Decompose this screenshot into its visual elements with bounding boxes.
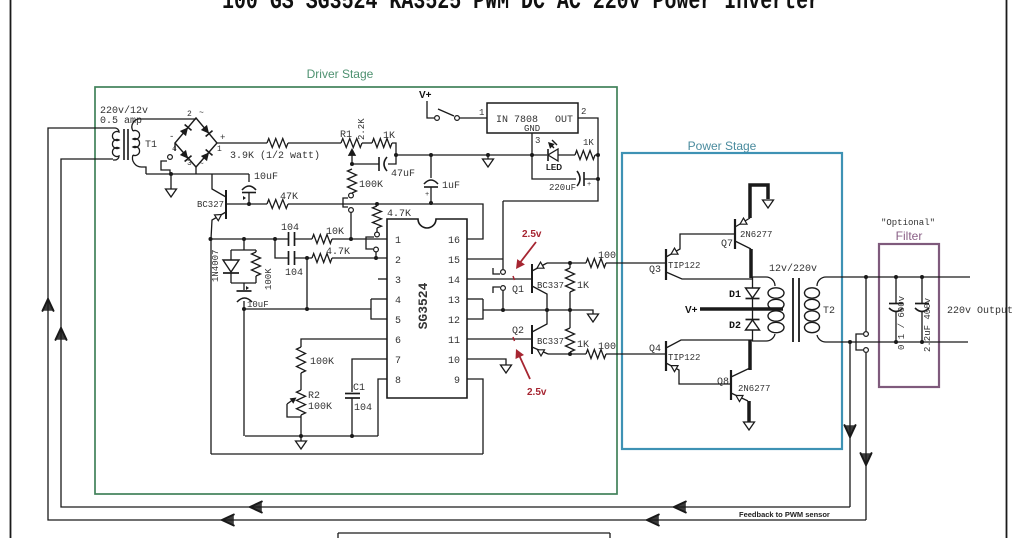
drive wire top [547, 262, 586, 264]
svg-text:1K: 1K [577, 340, 589, 351]
transistor Q4 [665, 341, 667, 371]
svg-text:2N6277: 2N6277 [740, 230, 772, 240]
resistor 47K [267, 200, 288, 209]
pin12 wire [467, 299, 483, 319]
capacitor 104 b [288, 251, 290, 265]
connector pin P2 [349, 208, 354, 213]
red tick 1 [513, 276, 515, 280]
connector pin P3 [375, 232, 380, 237]
transistor BC327 [225, 190, 227, 219]
LED diode [548, 149, 558, 161]
wire 7808 gnd down [532, 133, 576, 179]
T2 secondary outline [817, 277, 840, 286]
junction dot 431,155 [429, 153, 433, 157]
svg-text:16: 16 [448, 236, 460, 247]
transistor Q3 [665, 249, 667, 280]
svg-text:3: 3 [395, 276, 401, 287]
resistor 100K mid [348, 169, 357, 193]
resistor 4.7K vert [373, 206, 382, 228]
diode 1N4007 [230, 250, 232, 260]
pin15 wire [467, 258, 503, 260]
svg-text:BC337: BC337 [537, 281, 564, 291]
svg-text:"Optional": "Optional" [881, 218, 935, 228]
rail 310 gnd [483, 310, 593, 314]
junction dot 210,239 [209, 237, 213, 241]
svg-text:10K: 10K [326, 227, 344, 238]
junction dot 244,239 [242, 237, 246, 241]
junction dot 352,436 [350, 434, 354, 438]
junction dot T1/bridge [169, 172, 173, 176]
svg-text:~: ~ [199, 109, 204, 118]
svg-text:10uF: 10uF [254, 172, 278, 183]
wire 1K corner down [388, 143, 396, 164]
svg-text:BC337: BC337 [537, 337, 564, 347]
svg-text:TIP122: TIP122 [668, 261, 700, 271]
10uF b plus [246, 286, 249, 290]
wire J2b down [502, 291, 504, 310]
feedback arrow B up [56, 328, 67, 340]
LED arrows [549, 143, 554, 148]
svg-text:V+: V+ [685, 305, 698, 316]
svg-text:3.9K (1/2 watt): 3.9K (1/2 watt) [230, 150, 320, 162]
wire bridge to 3.9K [217, 142, 267, 144]
svg-text:100K: 100K [264, 268, 274, 290]
svg-text:T2: T2 [823, 306, 835, 317]
svg-text:Q2: Q2 [512, 326, 524, 337]
wire wiper to 47uF [352, 163, 379, 165]
transistor Q8 [730, 370, 732, 400]
svg-text:7: 7 [395, 356, 401, 367]
T1 secondary bottom wire [132, 155, 146, 174]
resistor 1K top [372, 139, 392, 148]
wire 866 down [865, 277, 867, 331]
wire R1 to 1K [362, 142, 372, 144]
pot R1 2.2K [341, 139, 362, 148]
resistor 10K [312, 235, 332, 244]
svg-text:2.2uF 400v: 2.2uF 400v [923, 297, 933, 352]
node wire y174 [146, 173, 249, 175]
junction dot 532,155 [530, 153, 534, 157]
svg-text:~: ~ [199, 160, 204, 169]
junction dot 376,258 [374, 256, 378, 260]
capacitor 1uF [430, 155, 432, 178]
svg-text:D2: D2 [729, 321, 741, 332]
svg-text:3: 3 [535, 136, 540, 146]
junction dot 244,309 [242, 307, 246, 311]
bridge minus pin hook [174, 143, 176, 151]
svg-text:13: 13 [448, 296, 460, 307]
Q8 collector thick [748, 340, 752, 370]
svg-text:3: 3 [187, 159, 192, 168]
junction dot 598,155 [596, 153, 600, 157]
capacitor C1 104 [345, 393, 360, 395]
svg-text:220v Output: 220v Output [947, 306, 1013, 317]
connector pin J2b [501, 286, 506, 291]
svg-text:100K: 100K [308, 402, 332, 413]
T2 primary coil [768, 288, 784, 298]
svg-text:BC327: BC327 [197, 200, 224, 210]
vcc drop wire [502, 201, 504, 269]
switch blade [438, 109, 454, 116]
pair bottom bar [231, 282, 256, 284]
capacitor 0.1/600v [895, 277, 897, 303]
svg-text:1: 1 [395, 236, 401, 247]
capacitor 2.2uF/400v [921, 277, 923, 303]
bridge diode BR [200, 150, 212, 162]
pin7 wire [352, 359, 387, 392]
P3 bracket [366, 237, 374, 249]
svg-text:2.2K: 2.2K [357, 118, 367, 140]
resistor 1K led [575, 151, 595, 160]
svg-text:T1: T1 [145, 140, 157, 151]
svg-text:4.7K: 4.7K [326, 247, 350, 258]
svg-text:1K: 1K [583, 138, 594, 148]
wire P2 down to rail239 [350, 212, 352, 239]
wire LED to 1K [558, 154, 575, 156]
resistor 100K vert [297, 347, 306, 373]
svg-text:6: 6 [395, 336, 401, 347]
transistor Q1 [531, 264, 533, 293]
junction dot 307,258 [305, 256, 309, 260]
svg-text:220uF: 220uF [549, 183, 576, 193]
resistor 1K q2 [569, 310, 571, 328]
svg-text:R2: R2 [308, 391, 320, 402]
IC SG3524 body [387, 219, 467, 398]
svg-text:TIP122: TIP122 [668, 353, 700, 363]
wire to 598 [595, 154, 598, 156]
junction dot wiper [350, 162, 354, 166]
svg-text:100: 100 [598, 251, 616, 262]
svg-text:D1: D1 [729, 290, 741, 301]
row2 link [275, 239, 288, 258]
junction dot 301,436 [299, 434, 303, 438]
Q8 emitter thick [747, 401, 751, 422]
drive wire bottom [548, 353, 586, 355]
pin11 wire [467, 338, 532, 340]
junction dot 866,277 [864, 275, 868, 279]
svg-text:5: 5 [395, 316, 401, 327]
feedback arrow line1 right [674, 502, 686, 513]
rail 436 [245, 435, 378, 437]
svg-text:+: + [425, 191, 429, 199]
T1 secondary coil [133, 131, 140, 156]
wire 7808 out [503, 118, 598, 201]
red arrow bottom [519, 355, 530, 379]
wire 307 down [306, 258, 308, 309]
wire 244 down [243, 309, 245, 436]
J1 bracket [161, 161, 170, 174]
battery box (partial) [338, 532, 610, 534]
junction dot at 396,155 [394, 153, 398, 157]
rail 454 [211, 453, 483, 455]
outer border right [1006, 0, 1008, 538]
resistor 1K q1 [569, 263, 571, 268]
pin13 wire [467, 298, 483, 300]
wire to Q3 [606, 262, 666, 264]
pin8 wire [378, 379, 387, 436]
svg-text:14: 14 [448, 276, 460, 287]
svg-text:1uF: 1uF [442, 181, 460, 192]
svg-text:V+: V+ [419, 90, 432, 101]
P1 jog [343, 198, 348, 207]
J2 bracket top [493, 268, 500, 274]
svg-text:Q7: Q7 [721, 239, 733, 250]
output bottom rail [840, 341, 968, 343]
junction dot 275,239 [273, 237, 277, 241]
rail 155 [397, 154, 547, 156]
capacitor 10uF a [248, 174, 250, 182]
svg-text:47uF: 47uF [391, 169, 415, 180]
feedback arrow line1 left [250, 502, 262, 513]
svg-text:Q4: Q4 [649, 344, 661, 355]
connector pin P4 [374, 247, 379, 252]
junction dot 570,354 [568, 352, 572, 356]
svg-text:12v/220v: 12v/220v [769, 263, 817, 275]
connector pin P1 [349, 193, 354, 198]
svg-text:1: 1 [479, 108, 484, 118]
junction dot 547,310 [545, 308, 549, 312]
svg-text:1K: 1K [383, 131, 395, 142]
junction dot 598,179 [596, 177, 600, 181]
svg-text:104: 104 [285, 268, 303, 279]
rail 239 [211, 238, 288, 240]
connector pin J3b [864, 348, 869, 353]
Q7 arrow gnd [763, 200, 774, 208]
feedback arrow line2 left [222, 515, 234, 526]
svg-text:-: - [169, 132, 174, 142]
wire J3b down [865, 353, 867, 520]
svg-text:2: 2 [187, 110, 192, 119]
connector pin J3a [864, 332, 869, 337]
rail 309 [244, 308, 371, 310]
capacitor 47uF [378, 157, 380, 171]
svg-text:2N6277: 2N6277 [738, 384, 770, 394]
junction dot 570,310 [568, 308, 572, 312]
bridge diamond [175, 118, 217, 167]
ground sym at T1 [170, 176, 172, 189]
R2 wiper [287, 404, 301, 417]
svg-text:0.1 / 600v: 0.1 / 600v [897, 295, 907, 350]
pot R2 [297, 390, 306, 415]
svg-text:9: 9 [454, 376, 460, 387]
feedback arrow J3b [861, 453, 872, 465]
regulator 7808 box [487, 103, 578, 133]
wire to Q4 [606, 353, 666, 355]
feedback wire A (220v top) [48, 128, 866, 520]
capacitor 104 a [288, 232, 290, 246]
wire R2 down [300, 415, 302, 436]
ground at 488 [487, 155, 489, 159]
bridge diode BL [179, 150, 191, 162]
svg-text:12: 12 [448, 316, 460, 327]
red tick 2 [513, 337, 515, 341]
pins45 bracket [371, 298, 387, 300]
svg-text:LED: LED [546, 163, 562, 172]
capacitor 10uF b [243, 283, 245, 290]
outer border left [10, 0, 12, 538]
Power Stage box [622, 153, 842, 449]
capacitor 220uF [577, 171, 580, 186]
switch contact A [435, 116, 440, 121]
wire base BC327 [226, 203, 267, 205]
V+ thick wire [700, 307, 783, 311]
Q7 collector thick [749, 249, 753, 278]
pin14 wire [467, 278, 532, 280]
svg-text:2.5v: 2.5v [527, 387, 547, 398]
svg-text:Q8: Q8 [717, 377, 729, 388]
svg-text:SG3524: SG3524 [416, 282, 431, 329]
resistor 3.9K [267, 139, 288, 148]
junction dot 488,155 [486, 153, 490, 157]
pin9 wire [467, 379, 483, 454]
svg-text:10: 10 [448, 356, 460, 367]
left long vertical [210, 239, 212, 454]
pin6 wire [301, 339, 387, 347]
svg-text:Filter: Filter [896, 229, 923, 243]
svg-text:R1: R1 [340, 130, 352, 141]
T1 core [123, 129, 125, 160]
junction dot 351,239 [349, 237, 353, 241]
svg-text:2: 2 [395, 256, 401, 267]
switch contact B [455, 116, 460, 121]
junction dot 431,203 [429, 201, 433, 205]
svg-text:100K: 100K [359, 180, 383, 191]
connector pin J1 [168, 155, 173, 160]
junction dot 503,310 [501, 308, 505, 312]
svg-text:Power Stage: Power Stage [688, 139, 757, 153]
bridge bottom wire [195, 167, 197, 174]
pair top bar [231, 249, 256, 251]
wire 850 down [849, 342, 851, 507]
svg-text:4: 4 [395, 296, 401, 307]
transistor Q7 [734, 219, 736, 249]
junction dot 377,204 [375, 202, 379, 206]
junction dot 249,204 [247, 202, 251, 206]
svg-text:Q3: Q3 [649, 265, 661, 276]
svg-text:2.5v: 2.5v [522, 229, 542, 240]
pin10 wire [467, 359, 506, 365]
red arrow top [519, 242, 536, 264]
svg-text:C1: C1 [353, 383, 365, 394]
rail 258 [295, 257, 312, 259]
svg-text:Q1: Q1 [512, 285, 524, 296]
svg-text:IN: IN [496, 115, 508, 126]
svg-text:100 GS SG3524 KA3525 PWM DC AC: 100 GS SG3524 KA3525 PWM DC AC 220v Powe… [222, 0, 820, 16]
svg-text:GND: GND [524, 124, 540, 134]
svg-text:104: 104 [354, 403, 372, 414]
svg-text:1: 1 [217, 145, 222, 154]
svg-text:100K: 100K [310, 357, 334, 368]
feedback arrow 850 [845, 425, 856, 437]
resistor 100 top [586, 259, 606, 268]
T2 core [792, 278, 794, 342]
R1 wiper arrow [351, 152, 353, 164]
wire P4 to rail258 [375, 252, 377, 258]
svg-text:+: + [220, 133, 225, 143]
svg-text:1K: 1K [577, 281, 589, 292]
wire switch to 7808 [459, 117, 487, 119]
pair top stem [243, 239, 245, 250]
junction dot 850,342 [848, 340, 852, 344]
junction dot 570,263 [568, 261, 572, 265]
rail 203 [288, 204, 483, 239]
J3 bracket [856, 334, 863, 350]
svg-text:Feedback to PWM sensor: Feedback to PWM sensor [739, 510, 830, 519]
resistor 4.7K row2 [312, 254, 332, 263]
wire 3.9K to R1 [288, 142, 341, 144]
resistor 100 bottom [586, 350, 606, 359]
connector pin J2a [501, 270, 506, 275]
svg-text:100: 100 [598, 342, 616, 353]
svg-text:+: + [587, 181, 591, 189]
bridge diode TR [200, 125, 212, 137]
pin3 stub [378, 278, 387, 280]
svg-text:47K: 47K [280, 192, 298, 203]
Filter box [879, 244, 939, 387]
svg-text:0.5 amp: 0.5 amp [100, 116, 142, 127]
svg-text:8: 8 [395, 376, 401, 387]
svg-text:11: 11 [448, 336, 460, 347]
J2 bracket bottom [493, 287, 500, 293]
Driver Stage box [95, 87, 617, 494]
ground below R2 [300, 436, 302, 441]
T1 primary coil [112, 128, 119, 160]
T2 primary outline [752, 277, 775, 286]
feedback arrow A up [43, 299, 54, 311]
T1 secondary top wire [132, 119, 196, 131]
bridge diode TL [179, 125, 191, 137]
svg-text:104: 104 [281, 223, 299, 234]
junction dots filter [894, 275, 898, 279]
svg-text:2: 2 [581, 107, 586, 117]
junction dot 307,309 [305, 307, 309, 311]
Q7 emitter thick [750, 185, 768, 218]
primary vertical [752, 277, 754, 288]
Q8 arrow gnd [744, 422, 755, 430]
feedback arrow line2 right [647, 515, 659, 526]
output top rail [840, 276, 970, 278]
resistor 100K par [255, 250, 257, 252]
wire 100K to R2 [300, 373, 302, 390]
diode D2 [746, 319, 760, 321]
svg-text:15: 15 [448, 256, 460, 267]
feedback wire B (220v bottom) [61, 159, 850, 507]
diode D1 [746, 288, 760, 298]
svg-text:Driver Stage: Driver Stage [307, 67, 374, 81]
svg-text:1N4007: 1N4007 [211, 250, 221, 282]
transistor Q2 [531, 325, 533, 354]
switch pole wire [427, 101, 434, 118]
svg-text:OUT: OUT [555, 115, 573, 126]
T2 secondary coil [805, 288, 820, 298]
